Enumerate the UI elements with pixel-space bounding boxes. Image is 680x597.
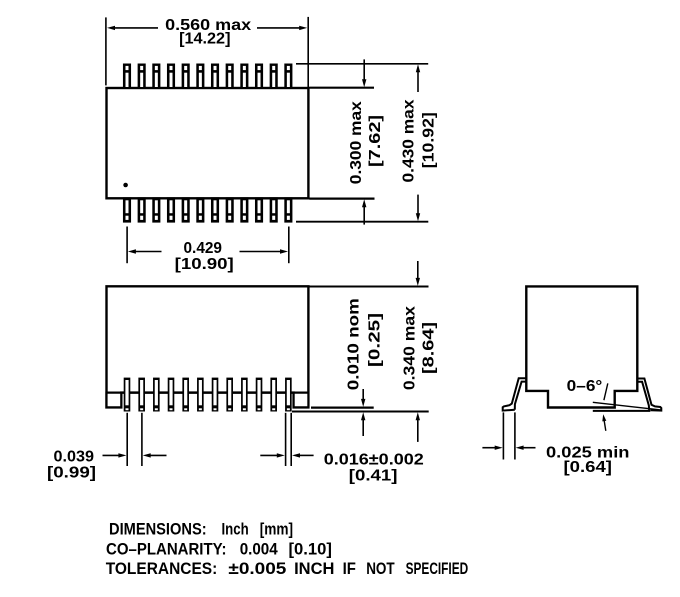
dimension 0.560 max: dimension line with outward arrows xyxy=(107,26,307,30)
svg-text:[8.64]: [8.64] xyxy=(421,322,438,374)
svg-text:0–6°: 0–6° xyxy=(567,378,603,395)
svg-text:[7.62]: [7.62] xyxy=(367,115,384,167)
dimension 0.025 min: left extension line xyxy=(502,412,504,459)
top view: package body xyxy=(107,88,309,198)
svg-text:[mm]: [mm] xyxy=(260,520,293,539)
svg-text:0.300 max: 0.300 max xyxy=(348,101,365,184)
top view: bottom pin 5 xyxy=(182,197,190,222)
top view: bottom pin 10 xyxy=(255,197,263,222)
side view: lead 4 xyxy=(168,378,175,412)
top view: top pin 11 xyxy=(270,64,278,90)
note line 2: CO-PLANARITY: 0.004 [0.10] xyxy=(106,539,332,558)
dimension 0.429: left extension line xyxy=(126,227,128,264)
svg-text:NOT: NOT xyxy=(366,559,395,578)
svg-text:IF: IF xyxy=(343,559,356,578)
side view: package body outline xyxy=(107,286,309,407)
end view: angle leader lower arrow xyxy=(602,414,606,431)
side view: body top extension line xyxy=(308,286,428,288)
svg-text:0.016±0.002: 0.016±0.002 xyxy=(324,452,424,469)
top view: top pin 12 xyxy=(284,64,292,90)
svg-text:±0.005: ±0.005 xyxy=(228,559,286,578)
top view: bottom pin 7 xyxy=(211,197,219,222)
svg-text:[10.92]: [10.92] xyxy=(421,112,438,168)
dimension 0.430 max: bottom arrow xyxy=(416,195,420,222)
end view: right gull-wing lead xyxy=(637,379,661,411)
side view: bottom-right corner post xyxy=(294,393,309,408)
end view: angle leader upper segment xyxy=(604,383,608,400)
top view: pin 1 index dot xyxy=(123,183,128,188)
dimension 0.039: extension line pin 1 xyxy=(126,413,128,466)
dimension 0.016: inward arrows xyxy=(260,453,313,457)
top view: bottom pin 1 xyxy=(123,197,131,222)
extension line: body top edge xyxy=(309,87,374,89)
extension line: body bottom edge xyxy=(309,198,374,200)
svg-text:0.039: 0.039 xyxy=(54,449,95,466)
dimension 0.016: extension line right xyxy=(290,413,292,466)
extension line: bottom pin tips xyxy=(296,221,428,223)
side view: lead 3 xyxy=(153,378,160,412)
note line 3: TOLERANCES: +/-0.005 INCH IF NOT SPECIFIED xyxy=(106,559,469,578)
dimension 0.429: right extension line xyxy=(288,227,290,264)
svg-text:0.010 nom: 0.010 nom xyxy=(346,298,363,390)
svg-text:[0.25]: [0.25] xyxy=(367,313,384,367)
top view: bottom pin 2 xyxy=(138,197,146,222)
extension line: top pin tips xyxy=(296,63,428,65)
svg-text:[0.64]: [0.64] xyxy=(564,459,613,476)
svg-text:0.430 max: 0.430 max xyxy=(401,99,418,182)
note line 1: DIMENSIONS: Inch [mm] xyxy=(109,520,293,539)
dimension 0.039: inward arrows xyxy=(103,453,167,457)
top view: top pin 8 xyxy=(226,64,234,90)
top view: top pin 5 xyxy=(182,64,190,90)
dimension 0.340 max: top arrow xyxy=(416,261,420,286)
svg-text:0.004: 0.004 xyxy=(240,539,279,558)
svg-text:DIMENSIONS:: DIMENSIONS: xyxy=(109,520,207,539)
top view: bottom pin 4 xyxy=(167,197,175,222)
top view: bottom pin 3 xyxy=(152,197,160,222)
dimension 0.016: extension line left xyxy=(285,413,287,466)
top view: top pin 9 xyxy=(240,64,248,90)
dimension 0.300 max: bottom arrow xyxy=(362,199,366,224)
dimension 0.039: extension line pin 2 xyxy=(141,413,143,466)
svg-text:[0.41]: [0.41] xyxy=(349,468,398,485)
side view: lead 10 xyxy=(256,378,263,412)
top view: top pin 2 xyxy=(138,64,146,90)
top view: top pin 10 xyxy=(255,64,263,90)
side view: body bottom edge between corner posts xyxy=(121,392,293,394)
end view: seating plane line under right foot xyxy=(593,410,651,412)
top view: top pin 3 xyxy=(152,64,160,90)
top view: bottom pin 11 xyxy=(270,197,278,222)
svg-text:CO–PLANARITY:: CO–PLANARITY: xyxy=(106,539,227,558)
svg-text:0.429: 0.429 xyxy=(184,240,223,257)
top view: bottom pin 8 xyxy=(226,197,234,222)
dimension 0.010 nom: bottom arrow xyxy=(361,412,365,436)
dimension 0.025 min: right extension line xyxy=(514,412,516,459)
side view: lead 11 xyxy=(270,378,277,412)
svg-text:[10.90]: [10.90] xyxy=(175,256,234,273)
top view: top pin 6 xyxy=(196,64,204,90)
side view: lead 2 xyxy=(138,378,145,412)
dimension 0.010 nom: top arrow xyxy=(361,389,365,407)
side view: bottom-left corner post xyxy=(107,393,122,408)
top view: top pin 4 xyxy=(167,64,175,90)
end view: left gull-wing lead xyxy=(503,378,527,410)
svg-text:INCH: INCH xyxy=(294,559,334,578)
top view: top pin 1 xyxy=(123,64,131,90)
dimension 0.560 max: right extension line xyxy=(307,17,309,88)
side view: lead 1 xyxy=(124,378,131,412)
side view: lead 5 xyxy=(182,378,189,412)
side view: seating plane extension line xyxy=(292,411,429,413)
end view: package body outline xyxy=(526,286,637,407)
side view: body bottom (standoff) extension line xyxy=(311,407,374,409)
svg-text:0.340 max: 0.340 max xyxy=(402,306,419,390)
dimension 0.430 max: top arrow xyxy=(416,64,420,92)
side view: lead 7 xyxy=(212,378,219,412)
dimension 0.429: dimension line with outward arrows xyxy=(128,249,288,253)
svg-text:[0.99]: [0.99] xyxy=(47,465,96,482)
side view: lead 9 xyxy=(241,378,248,412)
side view: lead 12 xyxy=(285,378,292,412)
end view: foot angle reference line (0-6 deg) xyxy=(593,402,662,410)
svg-text:[0.10]: [0.10] xyxy=(289,539,332,558)
dimension 0.340 max: bottom arrow xyxy=(416,412,420,442)
top view: bottom pin 6 xyxy=(196,197,204,222)
top view: top pin 7 xyxy=(211,64,219,90)
svg-text:[14.22]: [14.22] xyxy=(179,31,230,48)
side view: lead 8 xyxy=(226,378,233,412)
dimension 0.560 max: left extension line xyxy=(105,17,107,85)
svg-text:Inch: Inch xyxy=(222,520,249,539)
svg-text:SPECIFIED: SPECIFIED xyxy=(406,559,469,578)
svg-text:TOLERANCES:: TOLERANCES: xyxy=(106,559,218,578)
side view: lead 6 xyxy=(197,378,204,412)
top view: bottom pin 12 xyxy=(284,197,292,222)
dimension 0.300 max: top arrow xyxy=(362,59,366,87)
top view: bottom pin 9 xyxy=(240,197,248,222)
dimension 0.025 min: inward arrows xyxy=(482,446,535,450)
